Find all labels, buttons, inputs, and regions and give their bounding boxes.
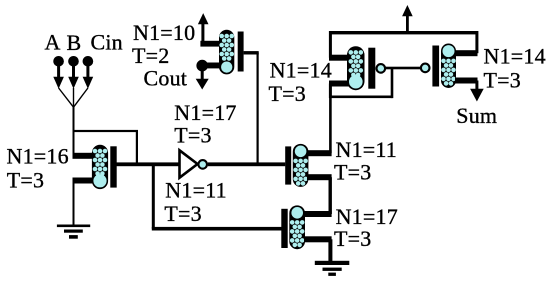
transistor M5 source stub (307, 174, 332, 180)
svg-text:Sum: Sum (456, 103, 497, 128)
svg-text:B: B (67, 30, 82, 55)
wire branch up to M2 gate (257, 53, 259, 164)
svg-text:A: A (45, 30, 61, 55)
Sum arrow down (475, 81, 478, 90)
svg-text:N1=11: N1=11 (336, 137, 397, 162)
wire rail to M5 drain (329, 96, 332, 153)
transistor M1 drain stub (73, 153, 94, 159)
gate bubble M4 (421, 64, 430, 73)
input dot B (68, 56, 79, 67)
transistor M1 N1=16 (92, 145, 117, 189)
wire M1 gate to inverter input (117, 162, 181, 166)
wire input node down to M1 drain (73, 106, 75, 156)
svg-text:T=3: T=3 (484, 68, 521, 93)
transistor M1 source stub (73, 178, 94, 184)
wire fan converge left (59, 88, 74, 107)
wire rail down to M3 drain (329, 31, 332, 58)
ground GND2 (315, 261, 350, 276)
wire M2 drain up (201, 24, 204, 44)
wire input branch down to gate net (136, 131, 138, 164)
wire M3 source down (329, 84, 332, 99)
inverter U1 (180, 150, 198, 177)
transistor M2 N1=10 (219, 30, 244, 75)
transistor M2 source stub (202, 63, 220, 69)
svg-text:T=3: T=3 (174, 123, 211, 148)
input arrow Cin (86, 64, 89, 77)
svg-text:N1=14: N1=14 (270, 58, 332, 83)
svg-text:Cin: Cin (91, 29, 123, 54)
wire M4 drain up to rail (475, 31, 478, 53)
wire M2 gate (244, 51, 259, 54)
input dot A (53, 56, 64, 67)
supply arrow (rail) (406, 16, 409, 34)
wire between gate bubbles (384, 67, 421, 70)
transistor M3 drain stub (329, 55, 349, 61)
input dot Cin (83, 56, 94, 67)
wire inverter output (208, 162, 285, 166)
ground GND1 (57, 225, 90, 239)
svg-text:N1=11: N1=11 (165, 177, 226, 202)
supply arrow (M2) (198, 13, 209, 24)
transistor M2 drain stub (200, 41, 220, 47)
transistor M4 drain stub (455, 50, 478, 56)
svg-text:T=3: T=3 (269, 81, 306, 106)
gate bubble M3 (377, 64, 386, 73)
transistor M3 source stub (329, 81, 349, 87)
svg-text:N1=17: N1=17 (174, 100, 236, 125)
svg-text:N1=14: N1=14 (484, 44, 546, 69)
svg-text:T=3: T=3 (7, 168, 44, 193)
supply rail top (329, 31, 477, 34)
transistor M5 drain stub (307, 150, 332, 156)
wire input branch horizontal (73, 130, 139, 132)
wire M5 source to M6 drain (329, 177, 332, 214)
wire M1 source to ground (73, 183, 75, 226)
svg-text:N1=16: N1=16 (7, 144, 69, 169)
transistor M6 drain stub (304, 211, 332, 217)
transistor M4 source stub (455, 78, 478, 84)
input arrow B (72, 64, 75, 77)
wire fan converge middle (73, 88, 75, 107)
svg-text:T=2: T=2 (132, 43, 169, 68)
transistor M3 N1=14 (347, 46, 375, 90)
wire fan converge right (74, 88, 88, 107)
transistor M6 source stub (304, 236, 332, 242)
svg-text:T=3: T=3 (164, 201, 201, 226)
inverter U1 output bubble (198, 160, 207, 169)
transistor M5 N1=11 (285, 144, 308, 187)
svg-text:T=3: T=3 (334, 226, 371, 251)
svg-text:T=3: T=3 (334, 159, 371, 184)
svg-text:N1=10: N1=10 (133, 20, 195, 45)
Cout arrow down (201, 70, 204, 79)
input arrow A (57, 64, 60, 77)
svg-text:Cout: Cout (144, 66, 188, 91)
node dot Cout (196, 60, 208, 72)
wire feedback horizontal (329, 96, 393, 99)
wire inverter input down branch (152, 163, 155, 229)
wire feedback up to gates (391, 68, 394, 98)
wire to M6 gate (152, 227, 282, 231)
transistor M4 N1=14 (432, 44, 456, 89)
wire M6 source to ground (328, 239, 332, 262)
transistor M6 N1=17 (281, 205, 305, 249)
